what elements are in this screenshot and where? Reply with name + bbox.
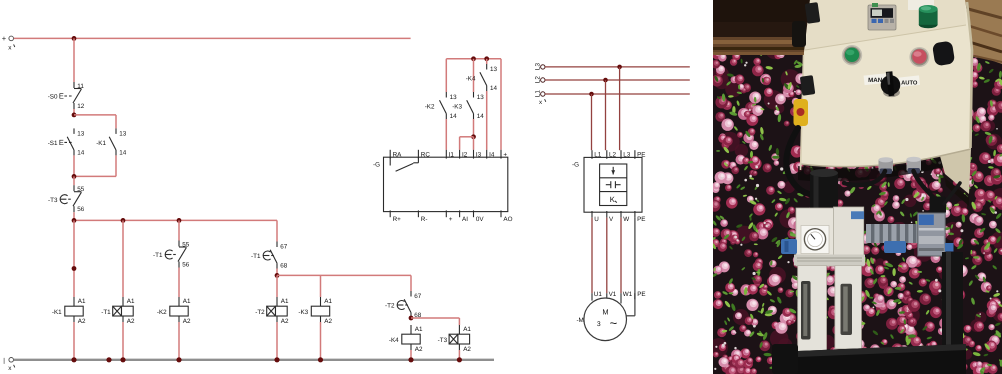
svg-text:56: 56 (77, 206, 85, 213)
svg-text:-M: -M (576, 317, 583, 324)
contact -K4 NO 13/14 (466, 64, 498, 92)
node below T2 67/68 (409, 316, 414, 321)
svg-text:|: | (3, 357, 5, 364)
svg-text:L1: L1 (594, 151, 602, 158)
svg-text:x: x (8, 45, 12, 52)
svg-text:x: x (539, 99, 543, 106)
svg-text:-K3: -K3 (452, 104, 462, 111)
wire K2 contact to input I1 (445, 119, 447, 150)
pushbutton -S1 NO contact 13/14 (48, 128, 85, 156)
node top rail junction (72, 36, 77, 41)
motor terminal U1 (591, 293, 593, 300)
wire second rail to T2 contact (277, 274, 411, 276)
svg-text:-K1: -K1 (96, 140, 106, 147)
wire T2 coil to bottom bus (276, 322, 278, 360)
svg-text:11: 11 (77, 83, 84, 90)
selector knob MAN/AUTO (881, 71, 901, 97)
wire PE to motor (634, 218, 636, 316)
svg-text:12: 12 (77, 103, 85, 110)
svg-text:-T2: -T2 (255, 309, 265, 316)
node bottom bus x=179 (176, 357, 181, 362)
svg-text:L2: L2 (609, 151, 617, 158)
wire node to T3 coil branch (411, 317, 459, 319)
timer contact -T1 NC 55/56 (153, 241, 190, 269)
svg-text:AI: AI (462, 216, 468, 223)
FRL filter-regulator body (796, 208, 834, 266)
wire T3 coil to bottom bus (458, 350, 460, 360)
svg-text:-T1: -T1 (101, 309, 111, 316)
node bottom bus x=109 (106, 357, 111, 362)
FRL lubricator body (834, 207, 864, 266)
contact -K2 NO 13/14 (425, 92, 457, 120)
wire down to T1 coil (122, 220, 124, 297)
node bottom bus x=123 (120, 357, 125, 362)
wire S0 to node below (73, 109, 75, 115)
blue drain fitting (806, 354, 815, 368)
hinge left middle (800, 75, 816, 96)
node below T1 67/68 (275, 273, 280, 278)
FRL label band (794, 255, 865, 266)
svg-text:PE: PE (637, 216, 645, 223)
svg-text:-G: -G (572, 162, 579, 169)
svg-text:A1: A1 (78, 298, 86, 305)
wire sub-circuit supply rail from + output (446, 58, 501, 60)
valve top connector (930, 197, 947, 214)
cable from right gland to valve connector (914, 171, 935, 198)
svg-text:-K3: -K3 (298, 309, 308, 316)
stand frame right post (942, 252, 963, 374)
svg-text:RC: RC (421, 151, 431, 158)
svg-text:-S0: -S0 (48, 94, 58, 101)
control box enclosure (800, 0, 973, 167)
svg-text:13: 13 (119, 131, 127, 138)
wire T1 67/68 to node (276, 269, 278, 276)
svg-text:68: 68 (280, 262, 288, 269)
svg-text:14: 14 (477, 113, 485, 120)
black buzzer (932, 40, 955, 66)
wood floor top-right corner (955, 0, 1002, 64)
blue fitting right of valve (945, 243, 954, 252)
coil -K4 (389, 325, 423, 353)
lubricator bowl (835, 266, 862, 349)
svg-text:-T3: -T3 (48, 197, 58, 204)
svg-text:13: 13 (77, 131, 85, 138)
wire down to K2 contact (445, 59, 447, 92)
yellow switch on left side (794, 99, 809, 126)
timer contact -T3 NC 55/56 (off delay) (48, 185, 85, 213)
svg-text:I3: I3 (476, 151, 482, 158)
solenoid valve (Festo) (918, 213, 946, 256)
svg-text:3: 3 (597, 321, 601, 328)
wire bottom return bus (14, 359, 494, 361)
svg-text:-T2: -T2 (385, 303, 395, 310)
label MAN (864, 73, 887, 85)
svg-text:13: 13 (477, 94, 485, 101)
node sub-rail at K3 (471, 56, 476, 61)
svg-text:R+: R+ (393, 216, 402, 223)
svg-text:-K4: -K4 (389, 337, 399, 344)
wire down to K4 contact (486, 59, 488, 64)
svg-text:~: ~ (610, 316, 618, 331)
svg-text:MAN: MAN (868, 77, 883, 84)
svg-text:A2: A2 (281, 318, 289, 325)
label AUTO (899, 75, 920, 87)
node below S0 (72, 113, 77, 118)
white label behind mushroom button (908, 0, 934, 10)
cable gland left (879, 157, 894, 174)
terminal L1 (534, 90, 546, 107)
svg-text:AO: AO (503, 216, 512, 223)
wire T2 contact to node (410, 317, 412, 319)
svg-text:-G: -G (373, 162, 380, 169)
main power cable on left (786, 128, 826, 195)
svg-text:14: 14 (119, 149, 127, 156)
svg-text:L1: L1 (534, 90, 541, 98)
svg-text:13: 13 (490, 66, 498, 73)
svg-text:A1: A1 (281, 298, 289, 305)
terminal L2 (534, 76, 545, 84)
svg-text:L2: L2 (534, 76, 541, 84)
timer contact -T1 NO 67/68 (251, 242, 288, 270)
digital timer on lid (868, 3, 896, 30)
wire top supply rail (14, 37, 411, 39)
node L3 tap (617, 65, 622, 70)
node below K3 contact (471, 134, 476, 139)
red stop pushbutton (909, 47, 929, 67)
svg-text:A2: A2 (127, 318, 135, 325)
wire phase L3 (545, 66, 690, 68)
pushbutton -S0 NC contact 11/12 (48, 82, 85, 110)
manifold fittings (866, 224, 918, 243)
cable from left gland (844, 171, 885, 185)
wire V to motor (606, 218, 608, 294)
svg-text:I2: I2 (462, 151, 468, 158)
filter sight window (801, 281, 811, 340)
svg-text:67: 67 (414, 293, 422, 300)
node rail at K2 branch (177, 218, 182, 223)
svg-text:W: W (623, 216, 629, 223)
node rail at K1 coil (72, 218, 77, 223)
svg-text:-K1: -K1 (52, 309, 62, 316)
svg-text:V: V (609, 216, 614, 223)
wire K1 branch rejoin (115, 155, 117, 176)
wire node to input I3 (473, 137, 475, 150)
svg-text:-S1: -S1 (48, 140, 58, 147)
timer contact -T2 NO 67/68 (385, 291, 422, 319)
wire node to input I2 (460, 136, 474, 138)
coil -K1 (52, 297, 86, 325)
wire T3 to lower rail (73, 212, 75, 220)
svg-text:14: 14 (77, 149, 85, 156)
wire K3 coil to bottom bus (320, 322, 322, 360)
svg-text:-T1: -T1 (153, 252, 163, 259)
coil -K3 (298, 297, 332, 325)
green start pushbutton (842, 45, 862, 65)
timer coil -T1 (101, 297, 135, 325)
wire U to motor (591, 218, 593, 294)
motor terminal V1 (606, 293, 608, 298)
green mushroom button on lid (919, 5, 938, 28)
svg-text:E: E (59, 138, 64, 147)
cable over frame from connector (944, 183, 960, 204)
blue FESTO band on lubricator (851, 211, 864, 219)
svg-text:A1: A1 (324, 298, 332, 305)
timer coil -T3 (438, 325, 472, 353)
contact -K1 NO 13/14 (seal-in) (96, 128, 127, 156)
node L1 tap (589, 92, 594, 97)
node bottom bus x=74 (71, 357, 76, 362)
lubricator sight window (841, 284, 853, 335)
svg-text:14: 14 (490, 85, 498, 92)
svg-text:V1: V1 (609, 291, 617, 298)
svg-text:14: 14 (450, 113, 458, 120)
svg-text:U: U (594, 216, 599, 223)
node bottom bus x=459.4 (457, 357, 462, 362)
wire phase L1 (545, 93, 690, 95)
wire S1 to node (73, 155, 75, 176)
wire L1 drop to soft starter (591, 94, 593, 150)
svg-text:13: 13 (450, 94, 458, 101)
contact -K3 NO 13/14 (452, 92, 484, 120)
svg-text:+: + (503, 151, 507, 158)
wire K4 contact to input I4 (486, 91, 488, 150)
svg-text:-K4: -K4 (466, 76, 476, 83)
wire down to T1 contact 55 (178, 220, 180, 240)
svg-text:-K2: -K2 (157, 309, 167, 316)
wire K3 contact to node (473, 119, 475, 137)
shadow under control box (798, 150, 970, 181)
wire node to T3 contact (73, 176, 75, 185)
svg-text:M: M (602, 308, 608, 317)
svg-text:A1: A1 (127, 298, 135, 305)
svg-text:AUTO: AUTO (901, 79, 918, 86)
wire down to T2 contact 67 (410, 275, 412, 291)
black latch on left edge (792, 21, 806, 47)
svg-text:56: 56 (182, 261, 190, 268)
node bottom bus x=277 (274, 357, 279, 362)
node sub-rail at K4 (484, 56, 489, 61)
blue elbow fitting left (781, 239, 797, 254)
svg-text:55: 55 (182, 241, 190, 248)
node below S1 (72, 174, 77, 179)
dark wall top-left of box (713, 0, 816, 40)
wire K2 coil to bottom bus (178, 322, 180, 360)
wire down to K3 contact (473, 59, 475, 92)
timer coil -T2 (255, 297, 289, 325)
node bottom bus x=411 (408, 357, 413, 362)
svg-text:A2: A2 (415, 346, 423, 353)
svg-text:x: x (8, 365, 12, 372)
svg-text:PE: PE (637, 151, 645, 158)
svg-text:+: + (2, 34, 7, 43)
svg-text:I1: I1 (449, 151, 455, 158)
svg-text:0V: 0V (476, 216, 485, 223)
pneumatic unit: black regulator knob (810, 169, 838, 226)
svg-text:E: E (59, 92, 64, 101)
svg-text:A2: A2 (78, 318, 86, 325)
wire down to T2 coil (276, 275, 278, 297)
svg-text:-T3: -T3 (438, 337, 448, 344)
wire phase L2 (545, 79, 690, 81)
svg-text:67: 67 (280, 244, 288, 251)
wire tap down to K3 coil (320, 275, 322, 297)
svg-text:W1: W1 (623, 291, 633, 298)
node on K1 coil wire (72, 266, 77, 271)
svg-text:PE: PE (637, 291, 645, 298)
svg-text:A2: A2 (463, 346, 471, 353)
svg-text:U1: U1 (594, 291, 603, 298)
wire K4 coil to bottom bus (410, 350, 412, 360)
wire L2 drop to soft starter (605, 80, 607, 150)
stand frame bottom bar (774, 344, 966, 374)
wire K1 coil to bottom bus (73, 322, 75, 360)
svg-text:A1: A1 (183, 298, 191, 305)
wire W to motor (620, 218, 622, 294)
svg-text:+: + (449, 216, 453, 223)
svg-text:-T1: -T1 (251, 253, 261, 260)
logic module -G (timer relay block) (373, 150, 513, 223)
pressure gauge (801, 226, 829, 254)
coil -K2 (157, 297, 191, 325)
svg-text:A2: A2 (324, 318, 332, 325)
node bottom bus x=320.5 (318, 357, 323, 362)
wire lower distribution rail (74, 219, 277, 221)
wire L3 drop to soft starter (619, 67, 621, 150)
motor terminal W1 (620, 293, 622, 303)
motor terminal PE (634, 293, 636, 299)
svg-text:RA: RA (393, 151, 403, 158)
wire branch to K1 contact (top) (74, 114, 116, 116)
terminal - (negative supply) (3, 357, 15, 372)
svg-text:R-: R- (421, 216, 428, 223)
cable gland right (907, 157, 922, 174)
terminal + (positive supply) (2, 34, 15, 51)
wire T1 coil to bottom bus (122, 322, 124, 360)
wire rail end down to T1 contact 67 (276, 220, 278, 241)
svg-text:K: K (610, 195, 615, 204)
blue fitting under manifold (884, 241, 906, 253)
motor -M (3~) (576, 298, 626, 341)
hinge top-left (805, 2, 821, 24)
svg-text:L3: L3 (534, 63, 541, 71)
terminal L3 (534, 63, 545, 71)
svg-text:A1: A1 (415, 326, 423, 333)
filter bowl (798, 266, 827, 354)
wire T1 contact to K2 coil (178, 268, 180, 298)
node rail at T1 coil (121, 218, 126, 223)
wood strip top-left (713, 37, 816, 55)
stand foot bottom-left (772, 344, 798, 374)
svg-text:I4: I4 (489, 151, 495, 158)
soft starter -G (power block) (572, 150, 646, 223)
svg-text:-K2: -K2 (425, 104, 435, 111)
svg-text:L3: L3 (623, 151, 631, 158)
svg-text:55: 55 (77, 186, 85, 193)
wire from top rail down to S0 (73, 38, 75, 82)
node L2 tap (603, 78, 608, 83)
svg-text:A2: A2 (183, 318, 191, 325)
svg-text:A1: A1 (463, 326, 471, 333)
wire down to K1 coil (73, 220, 75, 297)
